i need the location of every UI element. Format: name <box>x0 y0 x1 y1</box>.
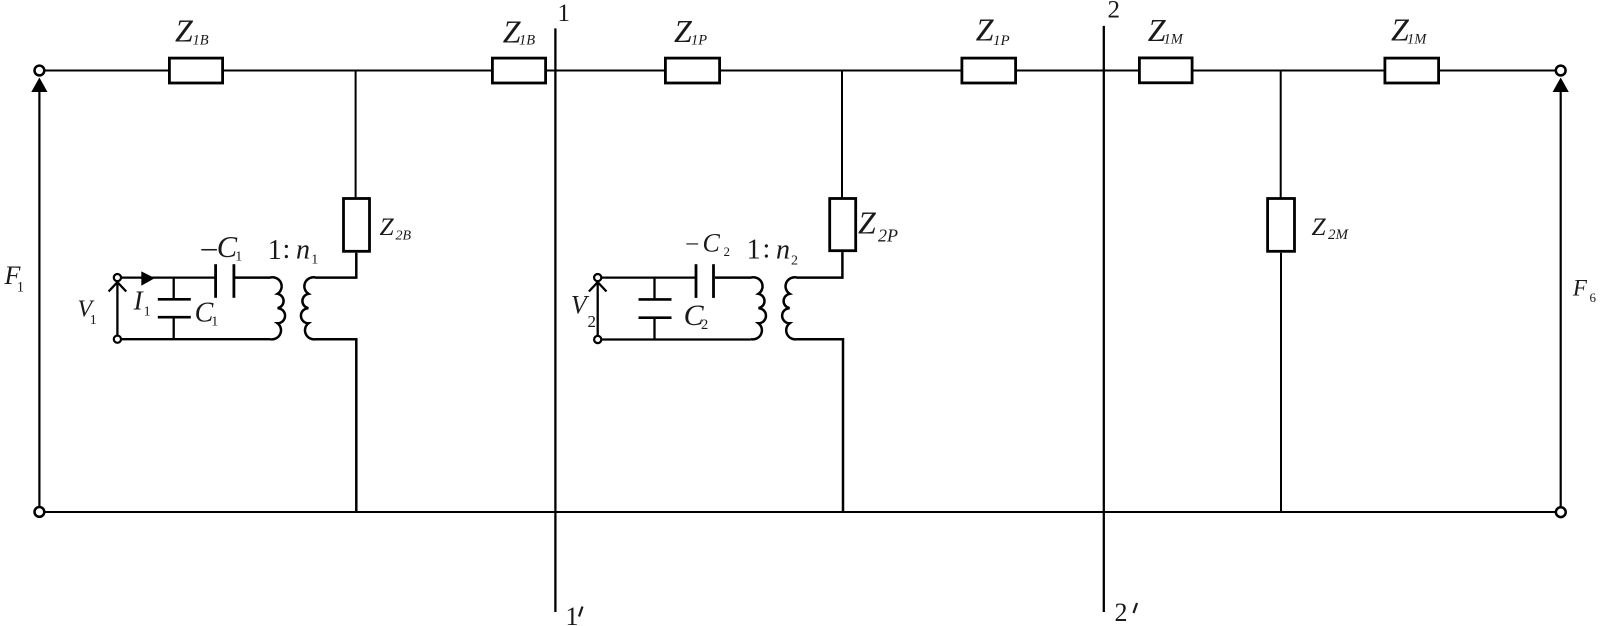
svg-text:2: 2 <box>588 312 597 331</box>
label I1 <box>133 286 151 320</box>
label Z1B second <box>503 13 536 49</box>
resistor Z1P second <box>962 58 1016 83</box>
svg-text:1: 1 <box>17 280 24 296</box>
svg-text:1: 1 <box>235 250 242 265</box>
impedance Z2M <box>1268 199 1295 252</box>
label 1:n2 <box>747 234 798 269</box>
svg-text:1: 1 <box>90 313 97 328</box>
svg-text:n: n <box>296 235 310 266</box>
svg-text:1P: 1P <box>691 33 707 49</box>
section line 1 <box>554 28 556 612</box>
transformer T2 secondary winding <box>782 252 843 512</box>
svg-text:–: – <box>686 230 699 255</box>
svg-text:1: 1 <box>311 253 318 268</box>
wire Z2B top stem <box>355 71 357 199</box>
svg-text:2M: 2M <box>1328 227 1350 243</box>
wire F6 arrow line with arrowhead <box>1553 78 1569 507</box>
capacitor -C1 series <box>216 264 234 298</box>
svg-text:2: 2 <box>724 244 731 259</box>
svg-text:1M: 1M <box>1164 32 1184 48</box>
resistor Z1P first <box>665 58 719 83</box>
svg-text:6: 6 <box>1590 290 1597 305</box>
wire cell2 top rail <box>602 276 696 278</box>
label -C2 <box>686 229 731 260</box>
svg-text:2: 2 <box>791 254 798 269</box>
label 2 prime <box>1115 598 1138 626</box>
svg-text:1: 1 <box>566 602 579 626</box>
wire cell1 bottom rail <box>122 338 270 340</box>
label V2 <box>571 290 596 331</box>
label Z1P second <box>976 12 1010 49</box>
svg-text:2: 2 <box>1108 0 1121 24</box>
wire Z2P top stem <box>841 71 843 199</box>
wire cell2 bottom rail <box>602 338 751 340</box>
arrow current I1 <box>141 271 155 285</box>
svg-text:2: 2 <box>1115 598 1128 626</box>
wire V2 arrow (chevron up) <box>589 282 607 335</box>
label Z2P <box>858 205 898 246</box>
node source V1 terminal bottom <box>114 336 121 343</box>
svg-text:C: C <box>703 229 721 258</box>
label V1 <box>78 296 97 328</box>
svg-text:Z: Z <box>380 212 395 241</box>
resistor Z1B first <box>169 58 222 83</box>
svg-text:Z: Z <box>858 205 877 241</box>
label Z1B first <box>175 13 209 49</box>
svg-text::: : <box>763 234 771 265</box>
transformer T2 primary winding <box>715 277 766 339</box>
svg-text:2: 2 <box>701 317 708 333</box>
resistor Z1M second <box>1385 58 1439 83</box>
svg-text:1: 1 <box>211 315 218 330</box>
node port terminal bottom-right <box>1556 507 1566 517</box>
label 1 prime <box>566 602 583 626</box>
svg-text:–C: –C <box>201 230 238 264</box>
node port terminal bottom-left <box>35 507 45 517</box>
wire Z2M bottom stem <box>1280 253 1282 512</box>
label Z2M <box>1312 212 1350 243</box>
label C2 <box>684 299 709 333</box>
wire bottom bus <box>45 511 1555 513</box>
node port terminal top-right <box>1556 66 1566 76</box>
svg-text:F: F <box>1572 275 1588 300</box>
svg-text:2P: 2P <box>878 226 898 246</box>
svg-text:1: 1 <box>268 235 282 266</box>
svg-text:Z: Z <box>175 13 194 49</box>
svg-text:2B: 2B <box>396 228 412 243</box>
capacitor C2 shunt <box>639 278 672 340</box>
transformer T1 primary winding <box>235 277 285 339</box>
wire Z2M top stem <box>1280 71 1282 199</box>
wire V1 arrow (chevron up) <box>109 282 127 335</box>
capacitor C1 shunt <box>158 278 191 340</box>
impedance Z2P <box>830 199 856 251</box>
label F1 <box>4 261 25 296</box>
section line 2 <box>1103 26 1105 612</box>
wire cell1 top rail <box>122 276 215 278</box>
label Z1P first <box>674 13 707 49</box>
svg-text:1M: 1M <box>1407 32 1427 48</box>
svg-text:1P: 1P <box>993 33 1010 49</box>
svg-text:1: 1 <box>144 305 151 320</box>
capacitor -C2 series <box>696 264 714 298</box>
svg-text:1: 1 <box>558 0 571 27</box>
wire top bus <box>45 70 1555 72</box>
impedance Z2B <box>344 199 370 252</box>
label 1:n1 <box>268 234 319 268</box>
svg-text:1B: 1B <box>193 33 209 49</box>
node source V2 terminal bottom <box>594 336 601 343</box>
label Z1M second <box>1391 12 1427 48</box>
node port terminal top-left <box>35 66 45 76</box>
node source V1 terminal top <box>114 274 121 281</box>
resistor Z1B second <box>492 58 545 83</box>
label C1 <box>195 297 219 329</box>
svg-text:1: 1 <box>747 235 761 266</box>
svg-text:Z: Z <box>1312 212 1327 241</box>
label -C1 <box>201 230 243 264</box>
svg-text::: : <box>283 234 291 265</box>
node source V2 terminal top <box>594 274 601 281</box>
transformer T1 secondary winding <box>301 253 356 512</box>
resistor Z1M first <box>1139 58 1192 83</box>
wire F1 arrow line with arrowhead <box>31 78 47 507</box>
svg-text:Z: Z <box>976 12 995 48</box>
label Z2B <box>380 212 412 244</box>
label Z1M first <box>1148 12 1184 48</box>
svg-text:n: n <box>776 235 790 266</box>
label F6 <box>1572 275 1597 305</box>
svg-text:1B: 1B <box>519 33 535 49</box>
